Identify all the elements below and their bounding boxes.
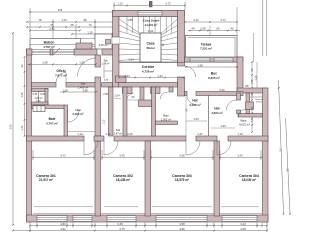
svg-text:2,08: 2,08: [200, 26, 206, 30]
svg-text:1,34: 1,34: [157, 74, 163, 78]
svg-text:Hol: Hol: [76, 108, 81, 112]
svg-text:Balcon: Balcon: [44, 40, 55, 44]
svg-text:68: 68: [71, 23, 74, 27]
svg-text:1,98: 1,98: [197, 63, 203, 67]
svg-text:1,24: 1,24: [124, 74, 130, 78]
svg-text:0,45: 0,45: [33, 94, 38, 96]
svg-text:Hol: Hol: [214, 107, 219, 111]
svg-text:3,43: 3,43: [237, 154, 243, 158]
svg-text:21,917 m²: 21,917 m²: [39, 178, 53, 182]
svg-text:18,030 m²: 18,030 m²: [242, 178, 256, 182]
svg-text:1,90: 1,90: [220, 124, 226, 128]
svg-text:3,45: 3,45: [10, 124, 13, 129]
svg-text:2,26: 2,26: [219, 88, 225, 92]
svg-text:2,88: 2,88: [82, 88, 88, 92]
svg-text:Camera 303: Camera 303: [172, 174, 192, 178]
svg-text:1,50: 1,50: [79, 61, 85, 65]
svg-text:Hol: Hol: [192, 99, 197, 103]
svg-text:Sas: Sas: [81, 82, 86, 86]
svg-text:Oficiu: Oficiu: [56, 69, 65, 73]
svg-text:4,73: 4,73: [60, 154, 66, 158]
svg-text:1,47: 1,47: [197, 132, 203, 136]
svg-text:3,73: 3,73: [165, 2, 171, 6]
svg-text:18,438 m²: 18,438 m²: [116, 178, 130, 182]
svg-text:Sfarui: Sfarui: [146, 46, 155, 50]
svg-text:3,45: 3,45: [119, 154, 125, 158]
svg-text:1,47 m²: 1,47 m²: [114, 133, 123, 136]
svg-text:3,0: 3,0: [280, 148, 283, 152]
svg-text:2,22: 2,22: [193, 18, 199, 22]
svg-text:4,58: 4,58: [179, 154, 185, 158]
svg-text:4,68: 4,68: [240, 227, 246, 231]
svg-text:1,10: 1,10: [77, 132, 83, 136]
svg-text:1,13: 1,13: [117, 2, 123, 6]
svg-text:1,98 m²: 1,98 m²: [102, 63, 110, 66]
svg-text:65: 65: [51, 23, 54, 27]
svg-text:1,24: 1,24: [128, 58, 134, 62]
svg-text:1,85: 1,85: [127, 18, 133, 22]
svg-text:lumina: lumina: [256, 102, 263, 104]
svg-text:2,060 m²: 2,060 m²: [72, 112, 83, 116]
svg-text:1,15: 1,15: [21, 125, 24, 130]
svg-text:1,29: 1,29: [87, 30, 93, 34]
svg-text:3,45: 3,45: [117, 222, 123, 226]
svg-text:7,917 m²: 7,917 m²: [55, 73, 67, 77]
svg-text:3,43: 3,43: [240, 222, 246, 226]
svg-text:88: 88: [246, 84, 249, 88]
svg-text:44: 44: [192, 26, 195, 30]
svg-text:1,13: 1,13: [104, 119, 106, 124]
svg-text:46: 46: [231, 26, 234, 30]
svg-text:1,23: 1,23: [61, 18, 67, 22]
svg-text:4,622 m²: 4,622 m²: [239, 122, 250, 126]
svg-text:4,75: 4,75: [119, 227, 125, 231]
svg-text:4,58: 4,58: [179, 222, 185, 226]
svg-text:Baie: Baie: [163, 114, 169, 118]
svg-text:2,002 m²: 2,002 m²: [161, 117, 171, 121]
svg-text:14,261 m²: 14,261 m²: [145, 23, 158, 27]
svg-text:Baie: Baie: [49, 117, 56, 121]
svg-text:1,10: 1,10: [237, 132, 243, 136]
svg-text:1,28: 1,28: [21, 92, 24, 97]
svg-text:3,72: 3,72: [220, 18, 226, 22]
svg-text:Casa: Casa: [147, 42, 155, 46]
svg-text:90: 90: [132, 95, 135, 99]
svg-text:2,52: 2,52: [49, 27, 55, 31]
svg-text:2,26: 2,26: [127, 132, 133, 136]
svg-text:0,45: 0,45: [40, 94, 45, 96]
svg-text:98: 98: [84, 18, 87, 22]
svg-text:Casa Scarii: Casa Scarii: [143, 19, 160, 23]
svg-text:6,305 m²: 6,305 m²: [208, 76, 220, 80]
svg-text:1,65: 1,65: [193, 117, 199, 121]
svg-text:1,38: 1,38: [62, 88, 68, 92]
svg-text:443: 443: [58, 8, 63, 12]
svg-text:2,28: 2,28: [42, 61, 48, 65]
svg-text:2,00: 2,00: [255, 75, 258, 80]
svg-text:1,10: 1,10: [251, 117, 254, 122]
svg-text:5,767 m²: 5,767 m²: [46, 122, 58, 126]
svg-text:Terasa: Terasa: [201, 42, 212, 46]
svg-text:Camera 302: Camera 302: [113, 174, 133, 178]
svg-text:7,251 m²: 7,251 m²: [200, 47, 212, 51]
svg-text:1,06: 1,06: [251, 79, 254, 84]
svg-text:4,030 m²: 4,030 m²: [189, 103, 201, 107]
svg-text:4,726 m²: 4,726 m²: [142, 69, 154, 73]
svg-text:Sas: Sas: [116, 128, 121, 132]
svg-text:83: 83: [217, 26, 220, 30]
svg-text:73: 73: [89, 23, 92, 27]
svg-text:1,04: 1,04: [148, 29, 154, 33]
svg-text:Curte de: Curte de: [255, 98, 264, 101]
svg-text:4,92: 4,92: [60, 227, 66, 231]
svg-text:2,98: 2,98: [103, 94, 108, 96]
svg-text:78: 78: [39, 18, 42, 22]
svg-text:1,41: 1,41: [105, 132, 111, 136]
svg-text:4,767 m²: 4,767 m²: [43, 45, 55, 49]
svg-text:Camera 304: Camera 304: [239, 174, 259, 178]
svg-text:2,06 m²: 2,06 m²: [99, 43, 108, 47]
svg-text:Camera 301: Camera 301: [36, 174, 56, 178]
svg-text:Buc: Buc: [211, 72, 217, 76]
svg-text:18,575 m²: 18,575 m²: [175, 178, 189, 182]
svg-text:4,89: 4,89: [179, 227, 185, 231]
svg-text:4,83: 4,83: [60, 222, 66, 226]
svg-text:4,604 m²: 4,604 m²: [211, 111, 223, 115]
svg-text:Coridor: Coridor: [142, 65, 155, 69]
svg-text:1,04: 1,04: [114, 94, 120, 98]
